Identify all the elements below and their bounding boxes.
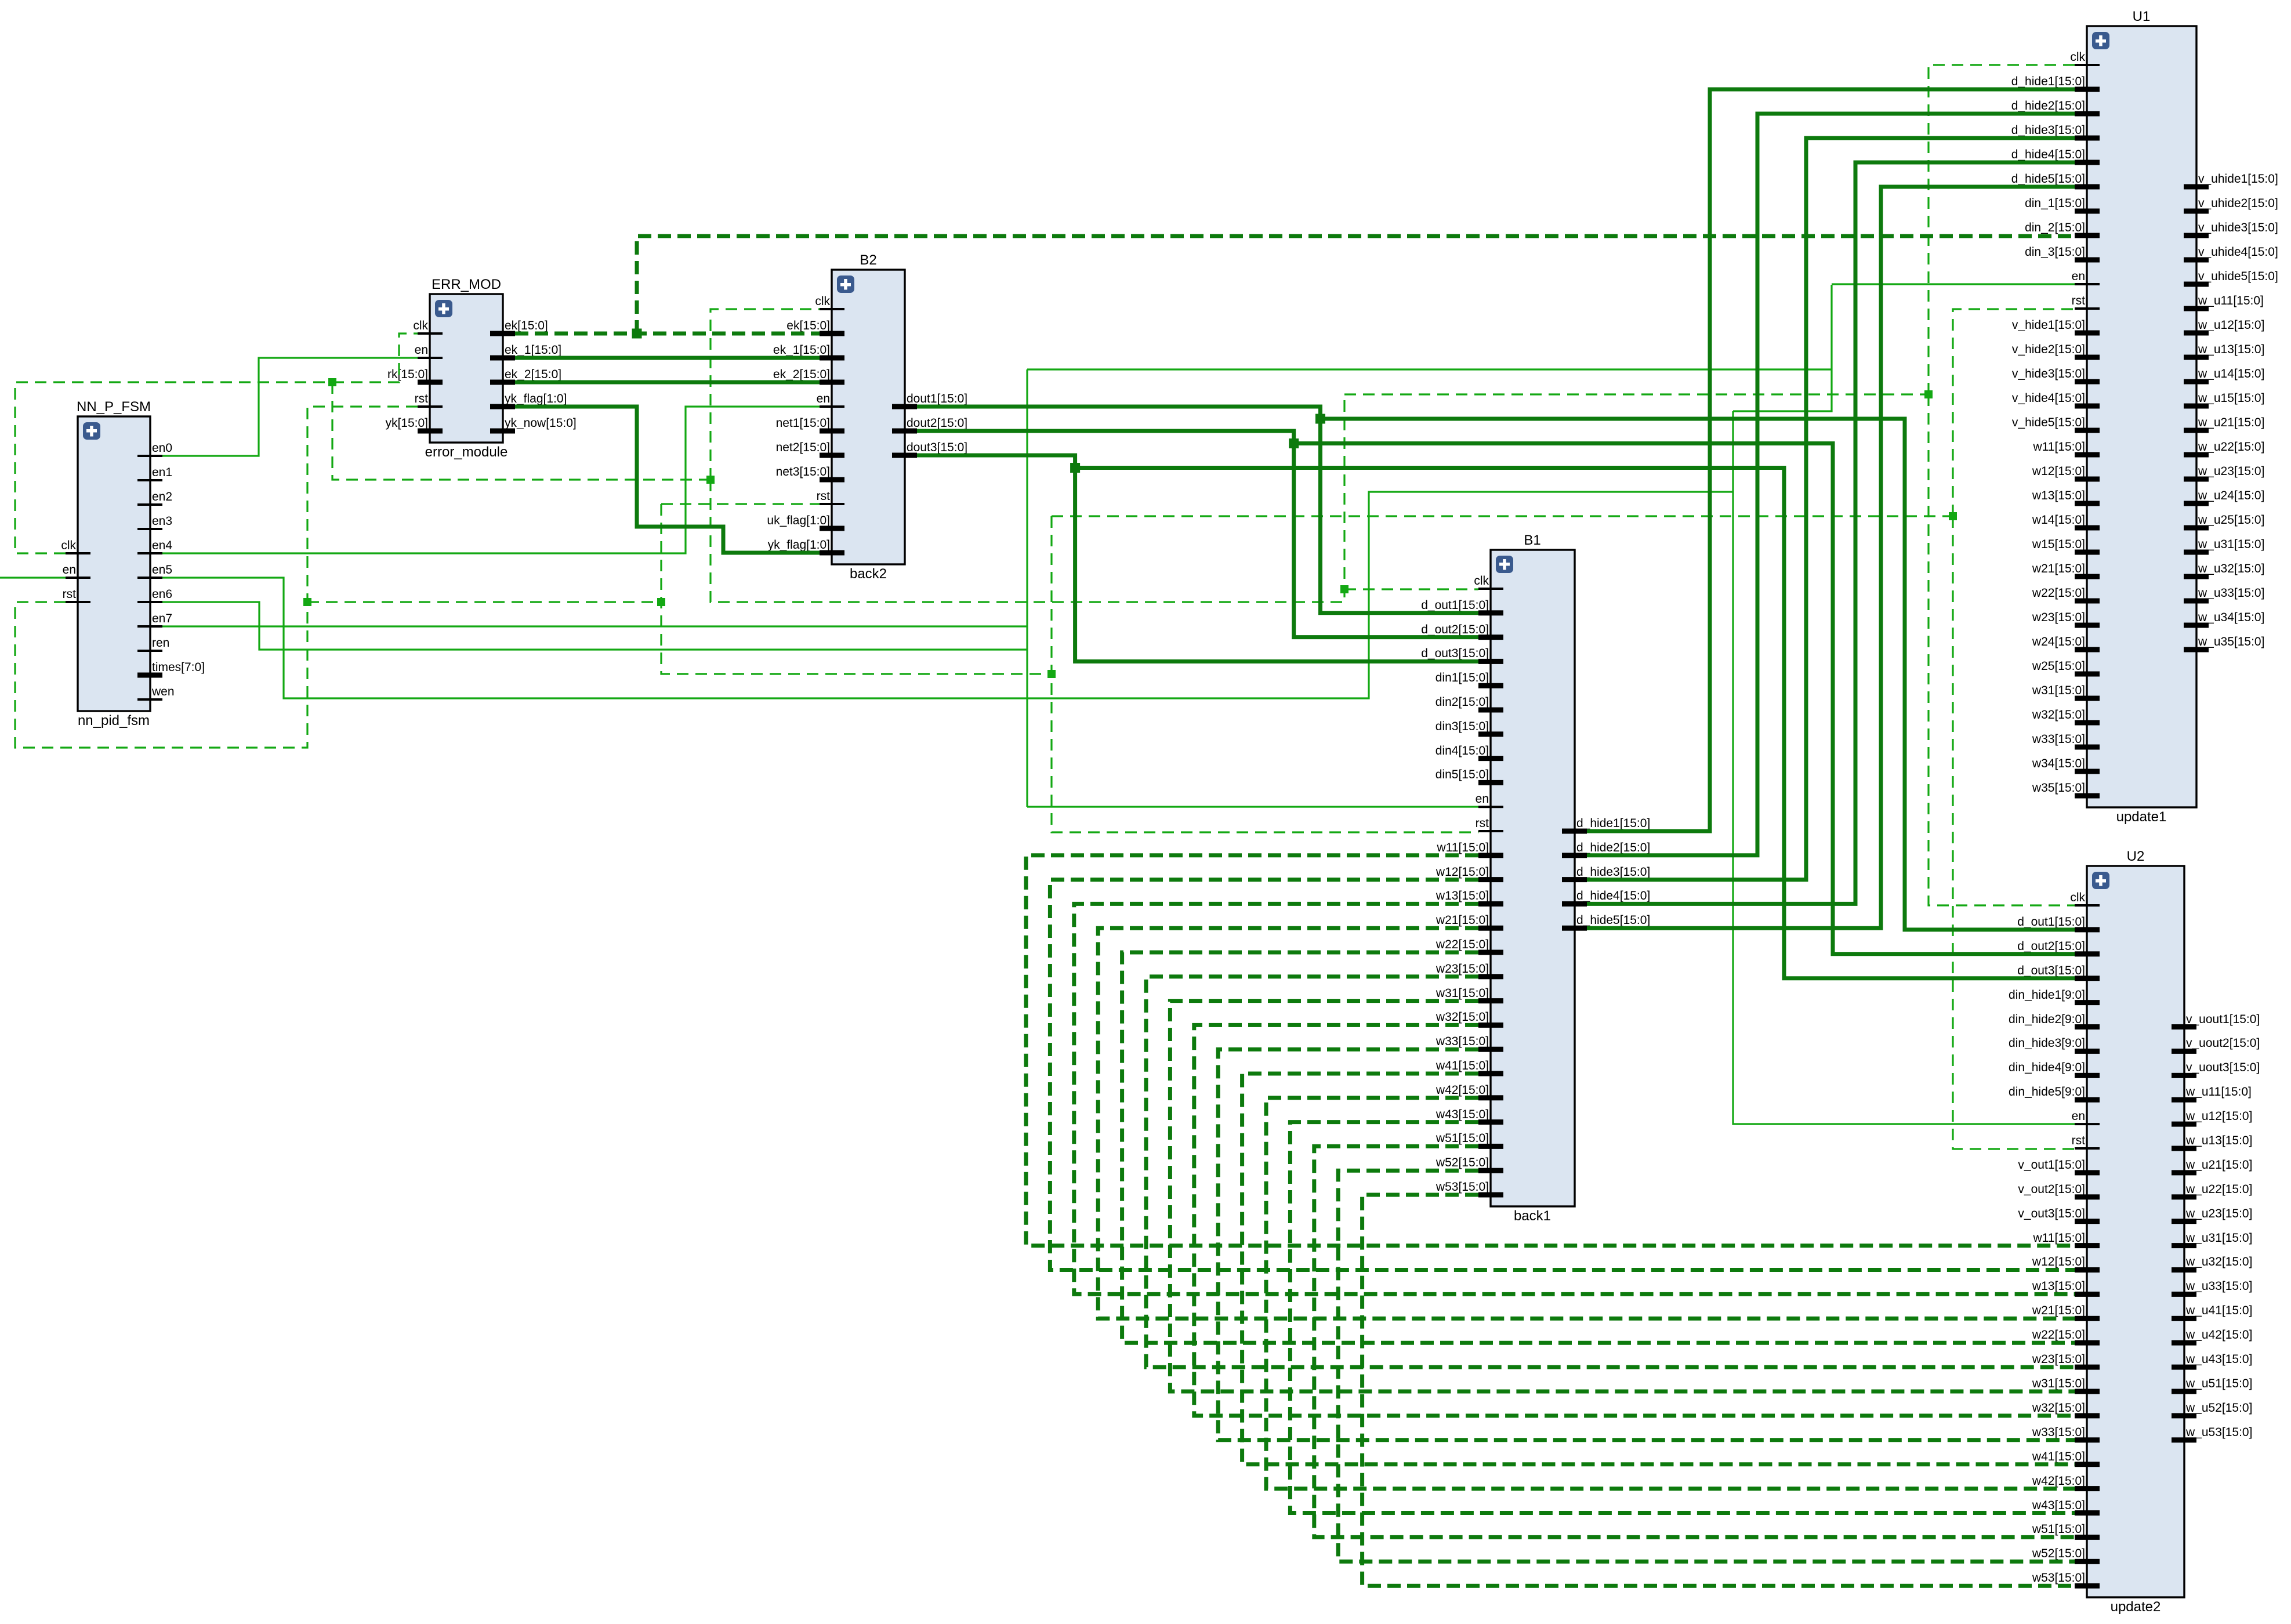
wire net en7: riser x3158 (1733, 285, 1832, 411)
pin update2.w_u23[15:0] (right) (2172, 1207, 2252, 1224)
svg-text:w_u11[15:0]: w_u11[15:0] (2198, 294, 2264, 307)
wire bus w23[15:0]: back1 to update2 (1146, 977, 2075, 1367)
svg-text:clk: clk (413, 319, 428, 332)
module ERR_MOD (error_module) (425, 277, 508, 460)
pin back1.w23[15:0] (left) (1435, 962, 1503, 979)
pin back1.w12[15:0] (left) (1435, 865, 1503, 882)
svg-text:U1: U1 (2133, 9, 2151, 24)
pin back1.din2[15:0] (left) (1435, 695, 1503, 713)
svg-text:w32[15:0]: w32[15:0] (1435, 1010, 1489, 1024)
pin error_module.yk_now[15:0] (right) (490, 416, 577, 434)
wire net en4: nn_pid_fsm.en4 to back2.en (162, 407, 820, 553)
svg-text:w43[15:0]: w43[15:0] (2032, 1499, 2085, 1512)
node dout2 junction (1289, 438, 1299, 448)
svg-text:din_2[15:0]: din_2[15:0] (2025, 221, 2085, 234)
svg-text:w_u24[15:0]: w_u24[15:0] (2198, 489, 2264, 502)
svg-text:v_uout2[15:0]: v_uout2[15:0] (2186, 1036, 2260, 1050)
pin update2.v_uout3[15:0] (right) (2172, 1061, 2260, 1078)
module U1 (update1) (2087, 9, 2196, 825)
svg-text:B1: B1 (1524, 532, 1540, 548)
wire bus w51[15:0]: back1 to update2 (1314, 1146, 2075, 1537)
pin update1.w_u13[15:0] (right) (2184, 343, 2264, 360)
svg-text:din1[15:0]: din1[15:0] (1435, 671, 1489, 684)
svg-text:rst: rst (2072, 1134, 2085, 1147)
svg-text:clk: clk (61, 539, 76, 552)
svg-text:rst: rst (817, 490, 830, 503)
pin update2.w53[15:0] (left) (2032, 1571, 2100, 1589)
svg-text:w33[15:0]: w33[15:0] (2032, 1426, 2085, 1439)
pin update2.w33[15:0] (left) (2032, 1426, 2100, 1442)
pin back2.yk_flag[1:0] (left) (768, 538, 844, 556)
svg-text:clk: clk (2070, 50, 2085, 64)
node clk junction A (328, 378, 336, 386)
pin update1.w_u31[15:0] (right) (2184, 538, 2264, 555)
svg-text:w_u12[15:0]: w_u12[15:0] (2198, 318, 2264, 332)
svg-text:clk: clk (1474, 574, 1489, 588)
svg-text:en: en (415, 343, 428, 357)
svg-text:ren: ren (152, 636, 169, 650)
svg-text:v_uhide3[15:0]: v_uhide3[15:0] (2198, 221, 2278, 234)
svg-text:w43[15:0]: w43[15:0] (1435, 1108, 1489, 1121)
svg-text:en6: en6 (152, 588, 172, 601)
svg-text:w21[15:0]: w21[15:0] (2032, 1304, 2085, 1317)
svg-text:en4: en4 (152, 539, 172, 552)
svg-text:w35[15:0]: w35[15:0] (2032, 781, 2085, 795)
pin update1.w31[15:0] (left) (2032, 684, 2100, 701)
svg-text:w41[15:0]: w41[15:0] (1435, 1059, 1489, 1072)
pin update1.en (left) (2072, 270, 2100, 285)
pin update1.w24[15:0] (left) (2032, 635, 2100, 652)
wire net clk: nn_pid_fsm.clk to trunk (15, 382, 332, 553)
svg-text:clk: clk (815, 295, 830, 308)
wire bus w31[15:0]: back1 to update2 (1170, 1001, 2075, 1391)
svg-text:en: en (2072, 1110, 2085, 1123)
svg-text:d_hide4[15:0]: d_hide4[15:0] (1576, 889, 1650, 902)
pin update2.w_u32[15:0] (right) (2172, 1255, 2252, 1273)
svg-text:net3[15:0]: net3[15:0] (776, 465, 830, 478)
pin back1.w51[15:0] (left) (1435, 1132, 1503, 1149)
svg-text:w23[15:0]: w23[15:0] (1435, 962, 1489, 976)
pin back2.net1[15:0] (left) (776, 416, 844, 434)
pin error_module.ek[15:0] (right) (490, 319, 548, 336)
pin update2.d_out3[15:0] (left) (2017, 964, 2100, 981)
svg-text:en0: en0 (152, 441, 172, 455)
pin update2.w_u31[15:0] (right) (2172, 1231, 2252, 1248)
pin nn_pid_fsm.en5 (right) (137, 563, 172, 579)
pin update2.v_out2[15:0] (left) (2018, 1183, 2100, 1199)
wire net clk: to update1.clk (1928, 65, 2075, 394)
pin nn_pid_fsm.times[7:0] (right) (137, 661, 205, 678)
pin update1.v_hide5[15:0] (left) (2012, 416, 2100, 433)
svg-text:w13[15:0]: w13[15:0] (2032, 1279, 2085, 1293)
svg-text:clk: clk (2070, 891, 2085, 904)
svg-text:en1: en1 (152, 466, 172, 479)
svg-text:w22[15:0]: w22[15:0] (2032, 586, 2085, 600)
pin error_module.ek_2[15:0] (right) (490, 368, 561, 385)
pin update1.din_1[15:0] (left) (2025, 197, 2100, 214)
pin back2.dout2[15:0] (right) (892, 416, 967, 434)
wire net clk: trunk to x2318 riser (710, 394, 1344, 602)
pin nn_pid_fsm.wen (right) (137, 685, 175, 701)
pin update1.w_u35[15:0] (right) (2184, 635, 2264, 652)
svg-text:w12[15:0]: w12[15:0] (1435, 865, 1489, 879)
svg-text:w14[15:0]: w14[15:0] (2032, 513, 2085, 527)
svg-text:v_hide2[15:0]: v_hide2[15:0] (2012, 343, 2085, 356)
wire net en: top run to x3158 (1027, 368, 1832, 370)
pin nn_pid_fsm.en4 (right) (137, 539, 172, 554)
svg-text:w22[15:0]: w22[15:0] (1435, 938, 1489, 951)
pin update2.en (left) (2072, 1110, 2100, 1125)
pin back1.d_hide5[15:0] (right) (1562, 913, 1650, 931)
pin update2.v_out1[15:0] (left) (2018, 1158, 2100, 1175)
svg-text:din_hide5[9:0]: din_hide5[9:0] (2009, 1085, 2085, 1099)
pin back1.din3[15:0] (left) (1435, 720, 1503, 737)
wire bus w33[15:0]: back1 to update2 (1218, 1049, 2075, 1440)
pin back2.ek_2[15:0] (left) (773, 368, 844, 385)
wire net en5: nn_pid_fsm.en5 run (162, 492, 1733, 698)
pin back2.en (left) (817, 392, 844, 408)
svg-text:w_u31[15:0]: w_u31[15:0] (2198, 538, 2264, 551)
svg-text:v_uout3[15:0]: v_uout3[15:0] (2186, 1061, 2260, 1074)
svg-text:d_out3[15:0]: d_out3[15:0] (2017, 964, 2085, 977)
wire net clk: to update2.clk (1928, 394, 2075, 905)
pin update2.d_out2[15:0] (left) (2017, 940, 2100, 956)
pin update1.v_uhide3[15:0] (right) (2184, 221, 2278, 238)
wire net rst: to back2.rst (661, 503, 820, 505)
pin back1.rst (left) (1476, 817, 1503, 832)
wire net en5: to update2.en (1733, 411, 2075, 1124)
wire net rst: long run to x3367 (1052, 515, 1953, 517)
pin update2.w12[15:0] (left) (2032, 1255, 2100, 1273)
wire bus dout3[15:0]: branch to update2.d_out3 (1075, 468, 2075, 978)
node dout1 junction (1315, 414, 1325, 424)
svg-text:v_hide3[15:0]: v_hide3[15:0] (2012, 367, 2085, 380)
pin update2.w_u52[15:0] (right) (2172, 1401, 2252, 1418)
svg-text:w11[15:0]: w11[15:0] (2032, 1231, 2085, 1245)
svg-text:ek_1[15:0]: ek_1[15:0] (505, 343, 561, 357)
svg-text:back2: back2 (850, 566, 887, 582)
pin nn_pid_fsm.en (left) (63, 563, 90, 579)
svg-text:w_u42[15:0]: w_u42[15:0] (2185, 1328, 2252, 1342)
wire net rst: nn_pid_fsm.rst to error_module.rst (15, 407, 418, 748)
pin update2.d_out1[15:0] (left) (2017, 915, 2100, 932)
svg-text:w31[15:0]: w31[15:0] (2032, 1377, 2085, 1390)
svg-text:w32[15:0]: w32[15:0] (2032, 1401, 2085, 1415)
module U2 (update2) (2087, 849, 2184, 1615)
module NN_P_FSM (nn_pid_fsm) (77, 399, 151, 728)
pin update1.w_u11[15:0] (right) (2184, 294, 2264, 311)
module B1 (back1) (1491, 532, 1575, 1224)
svg-text:din_hide3[9:0]: din_hide3[9:0] (2009, 1036, 2085, 1050)
pin update1.w_u15[15:0] (right) (2184, 391, 2264, 409)
svg-text:din5[15:0]: din5[15:0] (1435, 768, 1489, 781)
svg-text:din_3[15:0]: din_3[15:0] (2025, 245, 2085, 259)
pin back2.clk (left) (815, 295, 844, 310)
pin back1.din4[15:0] (left) (1435, 744, 1503, 761)
pin error_module.yk_flag[1:0] (right) (490, 392, 567, 409)
svg-text:din2[15:0]: din2[15:0] (1435, 695, 1489, 709)
svg-text:en: en (2072, 270, 2085, 283)
wire bus ek_2[15:0]: error_module to back2 (515, 380, 820, 385)
pin update2.w43[15:0] (left) (2032, 1499, 2100, 1516)
pin update1.w_u21[15:0] (right) (2184, 416, 2264, 433)
pin back1.w22[15:0] (left) (1435, 938, 1503, 955)
svg-text:d_hide1[15:0]: d_hide1[15:0] (1576, 817, 1650, 830)
pin update2.w_u11[15:0] (right) (2172, 1085, 2252, 1103)
svg-text:v_out3[15:0]: v_out3[15:0] (2018, 1207, 2085, 1220)
pin nn_pid_fsm.en1 (right) (137, 466, 172, 481)
svg-text:w_u11[15:0]: w_u11[15:0] (2185, 1085, 2252, 1099)
svg-text:w_u23[15:0]: w_u23[15:0] (2185, 1207, 2252, 1220)
pin update1.v_hide2[15:0] (left) (2012, 343, 2100, 360)
svg-text:din_hide4[9:0]: din_hide4[9:0] (2009, 1061, 2085, 1074)
svg-text:w_u13[15:0]: w_u13[15:0] (2185, 1134, 2252, 1147)
pin update1.clk (left) (2070, 50, 2100, 66)
node rst junction D (1949, 512, 1957, 520)
svg-text:v_out1[15:0]: v_out1[15:0] (2018, 1158, 2085, 1172)
pin back1.w13[15:0] (left) (1435, 889, 1503, 907)
pin nn_pid_fsm.en6 (right) (137, 588, 172, 603)
pin update2.w42[15:0] (left) (2032, 1474, 2100, 1491)
pin update2.w51[15:0] (left) (2032, 1522, 2100, 1540)
svg-text:w51[15:0]: w51[15:0] (2032, 1522, 2085, 1536)
pin back1.w33[15:0] (left) (1435, 1035, 1503, 1052)
pin update1.v_uhide1[15:0] (right) (2184, 172, 2278, 190)
wire bus w13[15:0]: back1 to update2 (1074, 904, 2075, 1294)
wire bus d_hide5[15:0]: back1 to update1 (1587, 187, 2075, 928)
svg-text:w33[15:0]: w33[15:0] (2032, 733, 2085, 746)
pin update2.w52[15:0] (left) (2032, 1547, 2100, 1564)
pin update2.w_u43[15:0] (right) (2172, 1353, 2252, 1370)
wire bus w41[15:0]: back1 to update2 (1242, 1074, 2075, 1464)
svg-text:d_hide3[15:0]: d_hide3[15:0] (2011, 124, 2085, 137)
pin update2.din_hide2[9:0] (left) (2009, 1013, 2100, 1029)
svg-text:en5: en5 (152, 563, 172, 577)
wire bus d_hide1[15:0]: back1 to update1 (1587, 89, 2075, 831)
wire net clk: to error_module.clk (332, 333, 418, 382)
svg-text:net1[15:0]: net1[15:0] (776, 416, 830, 430)
pin update1.din_3[15:0] (left) (2025, 245, 2100, 263)
svg-text:d_out3[15:0]: d_out3[15:0] (1421, 647, 1489, 660)
pin back2.net2[15:0] (left) (776, 441, 844, 458)
pin nn_pid_fsm.ren (right) (137, 636, 169, 652)
svg-text:w_u13[15:0]: w_u13[15:0] (2198, 343, 2264, 356)
node rst junction C (1047, 670, 1056, 678)
svg-text:U2: U2 (2127, 849, 2145, 864)
svg-text:yk_now[15:0]: yk_now[15:0] (505, 416, 577, 430)
pin update1.w14[15:0] (left) (2032, 513, 2100, 531)
pin error_module.yk[15:0] (left) (385, 416, 443, 434)
svg-text:w12[15:0]: w12[15:0] (2032, 1255, 2085, 1268)
svg-text:w_u33[15:0]: w_u33[15:0] (2185, 1279, 2252, 1293)
svg-text:v_hide1[15:0]: v_hide1[15:0] (2012, 318, 2085, 332)
pin update1.d_hide1[15:0] (left) (2011, 75, 2100, 92)
pin update2.w32[15:0] (left) (2032, 1401, 2100, 1418)
pin back1.w53[15:0] (left) (1435, 1180, 1503, 1198)
svg-text:w_u33[15:0]: w_u33[15:0] (2198, 586, 2264, 600)
svg-text:w15[15:0]: w15[15:0] (2032, 538, 2085, 551)
svg-text:w13[15:0]: w13[15:0] (2032, 489, 2085, 502)
svg-text:v_hide5[15:0]: v_hide5[15:0] (2012, 416, 2085, 429)
svg-text:w_u51[15:0]: w_u51[15:0] (2185, 1377, 2252, 1390)
svg-text:w42[15:0]: w42[15:0] (2032, 1474, 2085, 1488)
svg-text:d_hide5[15:0]: d_hide5[15:0] (1576, 913, 1650, 927)
svg-text:w22[15:0]: w22[15:0] (2032, 1328, 2085, 1342)
svg-text:w_u22[15:0]: w_u22[15:0] (2198, 440, 2264, 454)
svg-text:NN_P_FSM: NN_P_FSM (77, 399, 151, 415)
svg-text:d_hide1[15:0]: d_hide1[15:0] (2011, 75, 2085, 88)
svg-text:wen: wen (151, 685, 175, 698)
svg-text:v_uhide4[15:0]: v_uhide4[15:0] (2198, 245, 2278, 259)
pin back2.dout3[15:0] (right) (892, 441, 967, 458)
pin update1.d_hide2[15:0] (left) (2011, 99, 2100, 117)
pin nn_pid_fsm.rst (left) (63, 588, 90, 603)
svg-text:w23[15:0]: w23[15:0] (2032, 1353, 2085, 1366)
wire bus ek_1[15:0]: error_module to back2 (515, 356, 820, 360)
pin update1.w25[15:0] (left) (2032, 659, 2100, 677)
pin update2.din_hide3[9:0] (left) (2009, 1036, 2100, 1054)
pin back1.d_out3[15:0] (left) (1421, 647, 1503, 664)
pin update1.w_u14[15:0] (right) (2184, 367, 2264, 385)
pin update2.w_u42[15:0] (right) (2172, 1328, 2252, 1346)
node clk junction D (1924, 390, 1933, 398)
svg-text:w51[15:0]: w51[15:0] (1435, 1132, 1489, 1145)
wire net en6: nn_pid_fsm.en6 run (162, 602, 1027, 650)
svg-text:w_u14[15:0]: w_u14[15:0] (2198, 367, 2264, 380)
svg-text:din_hide1[9:0]: din_hide1[9:0] (2009, 988, 2085, 1002)
svg-text:w31[15:0]: w31[15:0] (2032, 684, 2085, 697)
pin back1.w41[15:0] (left) (1435, 1059, 1503, 1076)
svg-text:en3: en3 (152, 514, 172, 528)
pin update2.din_hide1[9:0] (left) (2009, 988, 2100, 1005)
svg-text:d_out1[15:0]: d_out1[15:0] (1421, 599, 1489, 612)
svg-text:w53[15:0]: w53[15:0] (2032, 1571, 2085, 1585)
pin back1.d_hide4[15:0] (right) (1562, 889, 1650, 907)
pin back2.uk_flag[1:0] (left) (767, 514, 844, 531)
pin update1.v_hide1[15:0] (left) (2012, 318, 2100, 336)
svg-text:w_u21[15:0]: w_u21[15:0] (2185, 1158, 2252, 1172)
pin update1.w32[15:0] (left) (2032, 708, 2100, 726)
pin update1.w11[15:0] (left) (2032, 440, 2100, 458)
pin back1.w31[15:0] (left) (1435, 987, 1503, 1003)
pin back1.w32[15:0] (left) (1435, 1010, 1503, 1028)
svg-text:w_u23[15:0]: w_u23[15:0] (2198, 465, 2264, 478)
svg-text:yk[15:0]: yk[15:0] (385, 416, 428, 430)
pin update2.w21[15:0] (left) (2032, 1304, 2100, 1321)
wire bus d_hide2[15:0]: back1 to update1 (1587, 114, 2075, 855)
svg-text:w_u35[15:0]: w_u35[15:0] (2198, 635, 2264, 648)
svg-text:v_uhide1[15:0]: v_uhide1[15:0] (2198, 172, 2278, 186)
pin back1.w52[15:0] (left) (1435, 1156, 1503, 1173)
pin update1.w_u33[15:0] (right) (2184, 586, 2264, 604)
wire net en: riser x1771 (1026, 369, 1028, 807)
pin update2.w31[15:0] (left) (2032, 1377, 2100, 1394)
pin update1.v_uhide2[15:0] (right) (2184, 197, 2278, 214)
svg-text:w23[15:0]: w23[15:0] (2032, 611, 2085, 624)
wire bus d_hide4[15:0]: back1 to update1 (1587, 162, 2075, 904)
pin error_module.rst (left) (415, 392, 443, 408)
svg-text:d_hide2[15:0]: d_hide2[15:0] (1576, 841, 1650, 854)
wire bus ek[15:0]: error_module.ek to back2.ek (515, 332, 820, 336)
svg-text:dout2[15:0]: dout2[15:0] (907, 416, 967, 430)
svg-text:din_1[15:0]: din_1[15:0] (2025, 197, 2085, 210)
pin update2.din_hide5[9:0] (left) (2009, 1085, 2100, 1103)
wire net clk: top run to x3325 (1344, 393, 1928, 395)
pin update1.d_hide3[15:0] (left) (2011, 124, 2100, 141)
pin back1.w43[15:0] (left) (1435, 1108, 1503, 1125)
svg-text:rst: rst (63, 588, 76, 601)
wire bus yk_flag[1:0]: error_module to back2 (515, 407, 820, 553)
pin update2.w_u13[15:0] (right) (2172, 1134, 2252, 1151)
svg-text:d_hide2[15:0]: d_hide2[15:0] (2011, 99, 2085, 113)
pin update2.w41[15:0] (left) (2032, 1450, 2100, 1467)
svg-text:d_out2[15:0]: d_out2[15:0] (2017, 940, 2085, 953)
pin update2.clk (left) (2070, 891, 2100, 907)
svg-text:times[7:0]: times[7:0] (152, 661, 205, 674)
wire net en7: to update1.en (1832, 283, 2075, 285)
pin update2.w23[15:0] (left) (2032, 1353, 2100, 1370)
pin update1.w21[15:0] (left) (2032, 562, 2100, 579)
wire net rst: riser x1140 (661, 504, 1052, 674)
pin back1.w11[15:0] (left) (1436, 841, 1503, 858)
wire net en0: nn_pid_fsm.en0 to error_module.en (162, 358, 418, 456)
pin error_module.ek_1[15:0] (right) (490, 343, 561, 361)
wire bus w32[15:0]: back1 to update2 (1194, 1025, 2075, 1415)
svg-text:v_out2[15:0]: v_out2[15:0] (2018, 1183, 2085, 1196)
svg-text:w_u15[15:0]: w_u15[15:0] (2198, 391, 2264, 405)
pin update1.w_u22[15:0] (right) (2184, 440, 2264, 458)
svg-text:w13[15:0]: w13[15:0] (1435, 889, 1489, 902)
svg-text:w_u34[15:0]: w_u34[15:0] (2198, 611, 2264, 624)
wire bus w22[15:0]: back1 to update2 (1122, 952, 2075, 1343)
wire net rst: to update1.rst (1953, 309, 2075, 516)
pin error_module.rk[15:0] (left) (387, 368, 443, 385)
svg-text:d_out2[15:0]: d_out2[15:0] (1421, 623, 1489, 636)
pin update2.w_u51[15:0] (right) (2172, 1377, 2252, 1394)
svg-text:rst: rst (415, 392, 428, 405)
pin nn_pid_fsm.en0 (right) (137, 441, 172, 457)
svg-text:dout3[15:0]: dout3[15:0] (907, 441, 967, 454)
svg-text:en: en (817, 392, 830, 405)
svg-text:w21[15:0]: w21[15:0] (1435, 913, 1489, 927)
pin update1.w_u34[15:0] (right) (2184, 611, 2264, 628)
wire bus dout3[15:0]: back2 to back1.d_out3 (917, 455, 1478, 661)
pin update1.w33[15:0] (left) (2032, 733, 2100, 750)
pin update2.v_uout2[15:0] (right) (2172, 1036, 2260, 1054)
pin back1.d_hide1[15:0] (right) (1562, 817, 1650, 834)
wire bus w53[15:0]: back1 to update2 (1362, 1195, 2075, 1586)
pin update1.v_hide3[15:0] (left) (2012, 367, 2100, 385)
svg-text:v_uhide5[15:0]: v_uhide5[15:0] (2198, 270, 2278, 283)
svg-text:ek_2[15:0]: ek_2[15:0] (773, 368, 830, 381)
svg-text:w_u32[15:0]: w_u32[15:0] (2185, 1255, 2252, 1268)
pin update2.v_uout1[15:0] (right) (2172, 1013, 2260, 1029)
pin update2.w_u53[15:0] (right) (2172, 1426, 2252, 1442)
svg-text:d_hide3[15:0]: d_hide3[15:0] (1576, 865, 1650, 879)
node rst junction A (303, 598, 311, 606)
svg-text:w42[15:0]: w42[15:0] (1435, 1083, 1489, 1097)
pin update2.w_u21[15:0] (right) (2172, 1158, 2252, 1175)
svg-text:ERR_MOD: ERR_MOD (432, 277, 501, 292)
wire bus w21[15:0]: back1 to update2 (1098, 928, 2075, 1318)
pin nn_pid_fsm.en7 (right) (137, 612, 172, 628)
pin update1.w35[15:0] (left) (2032, 781, 2100, 799)
svg-text:w_u25[15:0]: w_u25[15:0] (2198, 513, 2264, 527)
svg-text:ek_2[15:0]: ek_2[15:0] (505, 368, 561, 381)
wire bus ek[15:0]: to update1.din_2 (637, 236, 2075, 333)
pin back2.ek_1[15:0] (left) (773, 343, 844, 361)
svg-text:rst: rst (2072, 294, 2085, 307)
